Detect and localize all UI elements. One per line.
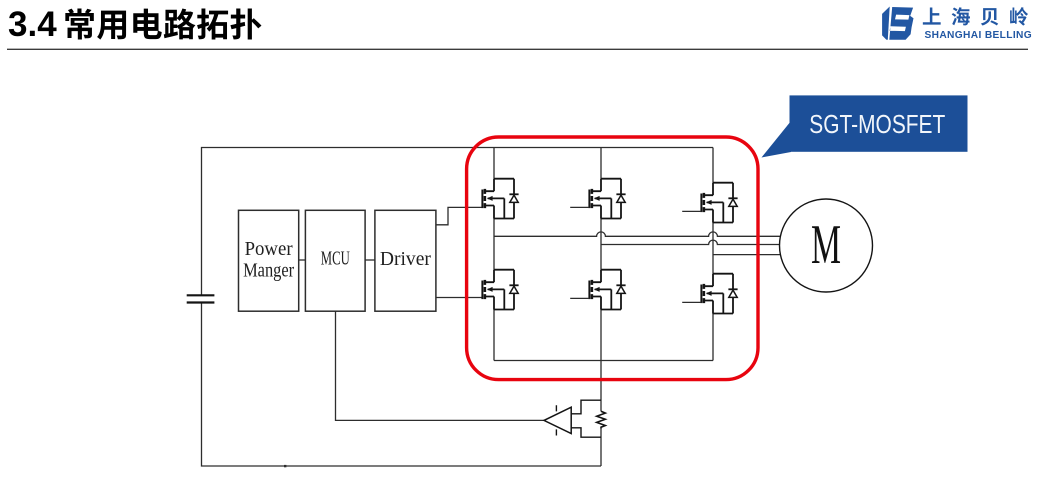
svg-text:SHANGHAI BELLING: SHANGHAI BELLING <box>925 30 1032 41</box>
transistor Q2 (V high-side) (SGT-MOSFET with body diode) <box>589 179 625 219</box>
block U1 Power Manger <box>239 210 299 311</box>
callout label SGT-MOSFET <box>790 95 968 151</box>
svg-text:Power: Power <box>245 238 293 260</box>
transistor Q1 (U high-side) (SGT-MOSFET with body diode) <box>482 179 518 219</box>
svg-text:SGT-MOSFET: SGT-MOSFET <box>809 111 945 139</box>
wire: gate stub of Q5 <box>570 297 589 299</box>
wire: phase V column vertical <box>600 148 602 361</box>
company logo text 上海贝岭 <box>923 7 1028 25</box>
wire: bridge DC- to shunt resistor <box>600 361 602 412</box>
transistor Q5 (V low-side) (SGT-MOSFET with body diode) <box>589 270 625 310</box>
wire: phase W line to motor <box>713 254 781 256</box>
shunt resistor R1 <box>597 411 606 428</box>
wire: DC bus - from capacitor to bottom ground rail <box>202 303 602 467</box>
wire: phase U column vertical <box>493 148 495 361</box>
wire: DC bus + from capacitor to bridge top rail <box>202 148 714 296</box>
slide title: 3.4 常用电路拓扑 <box>8 5 261 44</box>
wire: Driver to high-side gate <box>436 207 483 224</box>
red highlight box around SGT-MOSFET bridge <box>467 137 758 380</box>
company logo mark (Shanghai Belling B) <box>882 7 913 40</box>
transistor Q4 (U low-side) (SGT-MOSFET with body diode) <box>482 270 518 310</box>
wire: shunt top Kelvin tap to amplifier input <box>571 400 601 414</box>
wire: phase V line to motor (hops over W column) <box>601 240 781 244</box>
wire: MCU to current-sense amplifier output <box>336 311 545 420</box>
wire: shunt resistor to ground rail <box>600 429 602 466</box>
wire: phase W column vertical <box>712 148 714 361</box>
transistor Q6 (W low-side) (SGT-MOSFET with body diode) <box>701 274 737 314</box>
block U2 MCU <box>305 210 365 311</box>
callout pointer triangle <box>762 121 792 158</box>
transistor Q3 (W high-side) (SGT-MOSFET with body diode) <box>701 183 737 223</box>
wire: gate stub of Q3 <box>682 210 701 212</box>
svg-text:MCU: MCU <box>321 247 350 269</box>
block U3 Driver <box>375 210 436 311</box>
wire: Driver to low-side gate <box>436 297 483 299</box>
wire: shunt bottom Kelvin tap to amplifier input <box>571 428 601 437</box>
svg-text:M: M <box>811 214 841 276</box>
svg-text:Manger: Manger <box>243 260 294 282</box>
svg-text:3.4: 3.4 <box>8 5 57 44</box>
op-amp U4 current sense amplifier <box>544 405 571 435</box>
motor M1 <box>780 199 873 292</box>
svg-text:Driver: Driver <box>380 248 431 270</box>
wire: MCU to Driver <box>365 259 375 261</box>
wire: gate stub of Q2 <box>570 206 589 208</box>
wire: phase U line to motor (hops over V and W columns) <box>494 232 780 236</box>
capacitor C1 DC-link <box>187 295 215 302</box>
wire: Power Manger to MCU <box>299 259 306 261</box>
junction dot on ground rail <box>284 465 286 467</box>
title underline rule <box>7 48 1028 50</box>
wire: bottom DC- rail of bridge <box>494 360 713 362</box>
wire: gate stub of Q6 <box>682 301 701 303</box>
